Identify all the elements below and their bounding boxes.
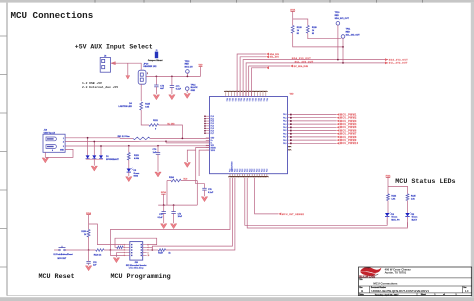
wire 3V3A to pullups: [292, 11, 294, 25]
wire R133 to D3: [387, 201, 389, 213]
MCU U2 body: [210, 97, 288, 174]
power arrow +5V down tap: [127, 63, 129, 75]
resistor on header row2: [117, 246, 123, 249]
svg-text:1: 1: [63, 138, 64, 140]
svg-text:C75: C75: [159, 214, 162, 216]
page border bottom bar: [0, 297, 474, 301]
wire MCU_PWM8: [293, 136, 337, 138]
wire MCU_PWM5: [293, 126, 337, 128]
resistor R126: [96, 249, 104, 252]
svg-text:P1.2: P1.2: [257, 169, 259, 172]
junction dots usb bus: [182, 138, 184, 140]
svg-text:R126 1k: R126 1k: [94, 254, 102, 256]
svg-text:P2.1: P2.1: [211, 118, 214, 120]
net arrow MCU_PWM8: [337, 136, 340, 139]
svg-text:0.1uF: 0.1uF: [158, 217, 164, 219]
svg-text:SDA_3V3_OUT: SDA_3V3_OUT: [292, 57, 311, 60]
svg-text:C8051F380: C8051F380: [232, 162, 234, 172]
svg-text:P1.2: P1.2: [247, 169, 249, 172]
wire MCU_PWM7: [293, 133, 337, 135]
svg-text:MCU Programming: MCU Programming: [111, 273, 171, 281]
svg-text:Date:: Date:: [359, 293, 364, 296]
wire TVS common: [86, 158, 103, 160]
svg-text:P2.1: P2.1: [228, 98, 230, 101]
page border right bar: [471, 3, 474, 298]
svg-text:P2.5: P2.5: [211, 128, 214, 130]
svg-text:P0.7: P0.7: [283, 137, 286, 139]
net arrow MCU_PWM4: [337, 123, 340, 126]
ground under C72: [153, 95, 159, 100]
svg-text:2: 2: [63, 142, 64, 144]
net arrow SDA_3V3: [266, 53, 269, 56]
title block logo Silicon Labs: [360, 267, 381, 276]
resistor R130: [87, 230, 90, 238]
capacitor C73: [173, 204, 175, 206]
svg-text:P2.2: P2.2: [211, 121, 214, 123]
svg-text:RED: RED: [185, 64, 190, 66]
svg-text:P1.2: P1.2: [244, 169, 246, 172]
svg-text:Size: Size: [359, 287, 362, 289]
resistor R127: [147, 249, 159, 251]
net arrow MCU_PWM10: [337, 142, 340, 145]
TVS diode D1a: [87, 138, 89, 156]
svg-text:4.99k: 4.99k: [134, 157, 140, 160]
svg-text:I2C_SDA_RUN: I2C_SDA_RUN: [294, 65, 309, 68]
header J20: [130, 242, 143, 261]
svg-text:B: B: [361, 289, 363, 293]
svg-text:P2.1: P2.1: [248, 98, 250, 101]
svg-text:SCL_3V3_OUT: SCL_3V3_OUT: [346, 35, 361, 37]
MCU right pins: [288, 114, 293, 116]
svg-text:5X2 Shrouded header: 5X2 Shrouded header: [126, 265, 147, 267]
frame left zone ticks: [0, 35, 7, 37]
net arrow SCL_3V3: [266, 55, 269, 58]
ground under C73: [170, 224, 176, 229]
node MCU_5V rail riser: [200, 67, 202, 77]
MCU bottom pins: [229, 174, 231, 177]
net arrow MCU_PWM9: [337, 139, 340, 142]
wire R121 to VBUS line: [159, 125, 183, 138]
svg-text:SDA_3V3: SDA_3V3: [270, 53, 280, 56]
svg-text:MCU_5V: MCU_5V: [185, 67, 194, 69]
svg-text:MCU_PWM4: MCU_PWM4: [340, 123, 357, 126]
title block divider under logo: [359, 277, 472, 279]
svg-text:MCU_PWM2: MCU_PWM2: [340, 118, 357, 120]
wire R135 to D2: [407, 201, 409, 213]
wire USB D-: [65, 141, 137, 143]
page border top bar: [0, 0, 474, 3]
resistor R125: [140, 102, 143, 110]
svg-text:MCU Reset: MCU Reset: [39, 273, 75, 281]
wire TP10 stem: [337, 25, 339, 60]
svg-text:P0.9: P0.9: [283, 143, 286, 145]
svg-text:P2.1: P2.1: [257, 98, 259, 101]
wire LED power rail: [387, 177, 389, 193]
svg-text:GND: GND: [191, 90, 196, 92]
svg-text:MCU_PWM10: MCU_PWM10: [340, 143, 359, 145]
wire MCU_PWM10: [293, 142, 337, 144]
ground under D1: [91, 166, 97, 171]
svg-text:P2.7: P2.7: [211, 133, 214, 135]
frame left border line: [6, 3, 8, 296]
wire R130 bottom to reset net: [88, 237, 90, 250]
net arrow SDA_3V3_OUT right: [385, 58, 388, 61]
svg-text:P1.2: P1.2: [237, 169, 239, 172]
wire JP10 to 5V rail: [146, 75, 201, 77]
wire bottom to R127 line: [166, 178, 235, 250]
wire I2C_SDA_RUN: [249, 66, 290, 97]
svg-text:MCU_PWM7: MCU_PWM7: [340, 134, 357, 136]
resistor R129: [306, 26, 309, 34]
svg-text:BLACK: BLACK: [191, 86, 199, 89]
jumper shunt symbol JS: [155, 52, 158, 59]
svg-text:P2.1: P2.1: [234, 98, 236, 101]
wire D+ into MCU: [157, 145, 159, 147]
svg-text:3: 3: [63, 146, 64, 148]
svg-text:C73: C73: [178, 213, 181, 215]
wire SCL_3V3: [240, 57, 266, 97]
ground under C75: [161, 224, 167, 229]
svg-text:S1 PushButton/Reset: S1 PushButton/Reset: [53, 253, 73, 256]
wire SDA_3V3_OUT: [243, 60, 388, 97]
MCU top pins: [224, 90, 227, 93]
wire I2C_SCL_RUN: [252, 68, 267, 97]
wire MCU_PWM6: [293, 130, 337, 132]
TVS diode D1c: [100, 146, 102, 155]
svg-text:MCU_P0: MCU_P0: [391, 219, 400, 221]
wire MCU_PWM9: [293, 139, 337, 141]
ground under J19: [42, 158, 48, 163]
svg-text:RED: RED: [346, 31, 351, 33]
svg-text:RED: RED: [335, 15, 340, 17]
svg-text:MCU Status LEDs: MCU Status LEDs: [395, 178, 455, 186]
svg-text:1: 1: [434, 294, 435, 296]
wire S1 to header: [54, 249, 59, 251]
wire MCU GND pin to ground: [187, 150, 195, 162]
ground under C70: [155, 172, 161, 177]
svg-text:P2.1: P2.1: [237, 98, 239, 101]
title block divider above doc row: [359, 285, 472, 287]
svg-text:1.0: 1.0: [465, 290, 469, 293]
svg-text:Green: Green: [412, 217, 419, 219]
svg-text:P2.1: P2.1: [240, 98, 242, 101]
svg-text:REGIN: REGIN: [211, 147, 217, 149]
power arrow +5V at J8 pin: [111, 62, 115, 65]
svg-text:MCU Connections: MCU Connections: [373, 282, 398, 286]
svg-text:D+: D+: [211, 140, 213, 142]
svg-text:MCU_PWM5: MCU_PWM5: [340, 127, 357, 129]
net arrow I2C_SDA_RUN: [290, 65, 293, 68]
ground under TP14: [184, 94, 190, 99]
svg-text:P1.2: P1.2: [262, 169, 264, 172]
svg-text:w/Cu Mini-Simp: w/Cu Mini-Simp: [129, 268, 145, 270]
svg-text:MCU_PWM6: MCU_PWM6: [340, 130, 357, 132]
svg-text:P2.0: P2.0: [211, 116, 214, 118]
svg-text:P2.1: P2.1: [254, 98, 256, 101]
resistor R133: [387, 194, 390, 201]
wire R128 bottom: [293, 33, 343, 47]
svg-text:P2.1: P2.1: [242, 98, 244, 101]
svg-text:P2.1: P2.1: [260, 98, 262, 101]
wire TP11 stem: [342, 38, 344, 63]
testpoint TP14 GND: [185, 87, 189, 91]
svg-text:MCU_PWM8: MCU_PWM8: [340, 137, 357, 139]
wire R124 left drop: [166, 181, 168, 206]
svg-text:P1.2: P1.2: [254, 169, 256, 172]
svg-text:MCU_INT_SENSE: MCU_INT_SENSE: [282, 214, 304, 216]
LED D3: [385, 213, 389, 216]
capacitor C72: [156, 76, 158, 78]
wire LED D2 return: [247, 178, 407, 228]
wire USB GND loop: [45, 149, 73, 157]
svg-text:0.1uF: 0.1uF: [208, 192, 214, 194]
wire MCU_PWM3: [293, 120, 337, 122]
svg-text:SP0503BAHT: SP0503BAHT: [106, 158, 119, 161]
capacitor C70: [157, 146, 159, 153]
svg-text:MCU_PWM3: MCU_PWM3: [340, 121, 357, 123]
wire USB VBUS: [65, 137, 120, 139]
wire LED D3 return: [245, 178, 387, 226]
wire SCL_3V3_OUT: [246, 63, 388, 97]
svg-text:P0.0: P0.0: [283, 114, 286, 116]
svg-text:MCU Connections: MCU Connections: [11, 10, 94, 21]
net arrow MCU_PWM5: [337, 126, 340, 129]
wire bottom to header loop: [152, 178, 232, 250]
svg-text:P0.8: P0.8: [283, 140, 286, 142]
ground under MCU left: [184, 163, 190, 168]
capacitor C75: [163, 204, 165, 206]
wire USB D- into MCU: [137, 140, 141, 142]
svg-text:P2.6: P2.6: [211, 130, 214, 132]
wire R125 to R121: [141, 110, 149, 125]
ground under D5: [128, 172, 130, 176]
svg-text:HEADER 1X2: HEADER 1X2: [143, 65, 157, 68]
svg-text:P2.3: P2.3: [211, 123, 214, 125]
svg-text:P1.2: P1.2: [242, 169, 244, 172]
svg-text:10: 10: [148, 255, 150, 257]
wire R130 top: [88, 215, 90, 230]
svg-text:LGBTPW-LER: LGBTPW-LER: [119, 106, 133, 108]
wire MCU vdd drop 2: [199, 150, 209, 176]
svg-text:2: 2: [147, 73, 148, 75]
resistor R128: [291, 26, 294, 34]
svg-text:2-3 External_Aux +5V: 2-3 External_Aux +5V: [82, 85, 118, 89]
net arrow MCU_PWM1: [337, 113, 340, 116]
connector J8: [100, 58, 110, 73]
svg-text:P2.1: P2.1: [262, 98, 264, 101]
ground under C76: [201, 197, 207, 202]
wire bottom long to header area: [110, 178, 230, 250]
svg-text:SCL_3V3: SCL_3V3: [270, 57, 280, 59]
wire USB D+: [65, 145, 157, 147]
wire header row2 right: [147, 247, 153, 250]
svg-text:VBUS: VBUS: [211, 150, 215, 152]
ground under header: [113, 258, 119, 263]
svg-text:3V3A: 3V3A: [161, 191, 167, 194]
wire header ground row: [116, 253, 125, 258]
svg-text:SDA_3V3_OUT: SDA_3V3_OUT: [335, 17, 350, 20]
svg-text:P1.2: P1.2: [252, 169, 254, 172]
svg-text:Sheet: Sheet: [421, 293, 427, 296]
svg-text:Austin, TX 78701: Austin, TX 78701: [385, 270, 407, 274]
svg-text:P0.3: P0.3: [283, 124, 286, 126]
svg-text:1-2 USB +5V: 1-2 USB +5V: [82, 82, 102, 85]
svg-text:P2.1: P2.1: [225, 98, 227, 101]
capacitor C76: [202, 187, 206, 189]
svg-text:Green: Green: [134, 173, 141, 175]
svg-text:SDA_3V3_OUT: SDA_3V3_OUT: [389, 58, 408, 61]
frame top zone ticks: [94, 0, 96, 3]
svg-text:UDD22-4B-PW-QFN-DUT-CUST-EVB-R: UDD22-4B-PW-QFN-DUT-CUST-EVB-REV1: [371, 289, 429, 293]
svg-text:P0.1: P0.1: [283, 117, 286, 119]
net arrow MCU_PWM6: [337, 129, 340, 132]
svg-text:Title: Title: [359, 278, 362, 281]
svg-text:P2.1: P2.1: [245, 98, 247, 101]
net arrow MCU_PWM7: [337, 132, 340, 135]
wire D2 bottom: [407, 217, 409, 227]
LED D5: [128, 160, 130, 169]
net arrow MCU_PWM3: [337, 120, 340, 123]
MCU right nc pins: [288, 145, 291, 148]
MCU left pins lower: [206, 137, 210, 139]
wire SDA_3V3: [237, 54, 266, 97]
MCU left pins upper: [205, 115, 210, 117]
svg-text:P1.2: P1.2: [259, 169, 261, 172]
frame bottom edge line: [7, 295, 471, 297]
svg-text:+5V AUX Input Select: +5V AUX Input Select: [75, 43, 153, 50]
net arrow MCU_PWM2: [337, 116, 340, 119]
pushbutton S1: [59, 249, 61, 251]
svg-text:P1.2: P1.2: [235, 169, 237, 172]
svg-text:P2.1: P2.1: [251, 98, 253, 101]
title block divider above date row: [359, 292, 472, 294]
svg-text:MCU_PWM9: MCU_PWM9: [340, 140, 357, 142]
wire R129 bottom: [308, 33, 342, 39]
svg-text:4: 4: [52, 149, 53, 152]
wire MCU_INT_SENSE: [255, 178, 279, 214]
wire header right loop: [115, 238, 157, 247]
ground under C74: [85, 266, 91, 271]
svg-text:P0.5: P0.5: [283, 130, 286, 132]
svg-text:R61 2.2 Ohm: R61 2.2 Ohm: [118, 136, 130, 138]
resistor R121: [149, 124, 159, 127]
svg-text:P1.2: P1.2: [239, 169, 241, 172]
resistor R124: [167, 180, 171, 182]
wire 3V3A mid rail: [162, 194, 164, 205]
ground under C71: [169, 95, 175, 100]
svg-text:SCL_3V3_OUT: SCL_3V3_OUT: [389, 63, 408, 65]
net arrow MCU_INT_SENSE: [278, 213, 281, 216]
net arrow SCL_3V3_OUT right: [385, 62, 388, 65]
svg-text:P0.2: P0.2: [283, 121, 286, 123]
svg-text:P1.2: P1.2: [267, 169, 269, 172]
svg-text:SCL_3V3_OUT: SCL_3V3_OUT: [295, 62, 314, 64]
LED D2: [405, 213, 409, 216]
capacitor C74: [86, 260, 90, 262]
header JP10: [138, 70, 146, 84]
capacitor C71: [171, 76, 173, 78]
wire MCU_PWM1: [293, 114, 337, 116]
svg-text:Green: Green: [391, 217, 398, 219]
svg-text:MCU RST: MCU RST: [57, 258, 66, 260]
svg-text:BLKY: BLKY: [412, 219, 418, 221]
wire D3 bottom: [386, 217, 388, 225]
svg-text:P1.2: P1.2: [264, 169, 266, 172]
svg-text:Tuesday, April 18, 2017: Tuesday, April 18, 2017: [375, 293, 400, 296]
svg-text:MCU_PWM1: MCU_PWM1: [340, 114, 357, 116]
svg-text:P2.1: P2.1: [265, 98, 267, 101]
resistor R123: [128, 146, 130, 153]
svg-text:P2.1: P2.1: [231, 98, 233, 101]
wire MCU vdd drop 1: [196, 148, 210, 189]
wire MCU_PWM4: [293, 123, 337, 125]
TVS diode D1b: [93, 142, 95, 156]
svg-text:Jumper Shunt: Jumper Shunt: [148, 59, 163, 62]
svg-text:0.1uF: 0.1uF: [176, 89, 182, 91]
wire J8 to JP10: [111, 63, 142, 70]
svg-text:P0.6: P0.6: [283, 133, 286, 135]
svg-text:VDD: VDD: [199, 64, 204, 66]
svg-text:P1.2: P1.2: [249, 169, 251, 172]
svg-text:1: 1: [456, 294, 457, 296]
wire JP10 bottom to R125: [140, 84, 142, 101]
title block outer box: [359, 267, 472, 296]
resistor R135: [406, 194, 409, 201]
wire net into MCU mid: [166, 142, 210, 144]
wire MCU_PWM2: [293, 117, 337, 119]
